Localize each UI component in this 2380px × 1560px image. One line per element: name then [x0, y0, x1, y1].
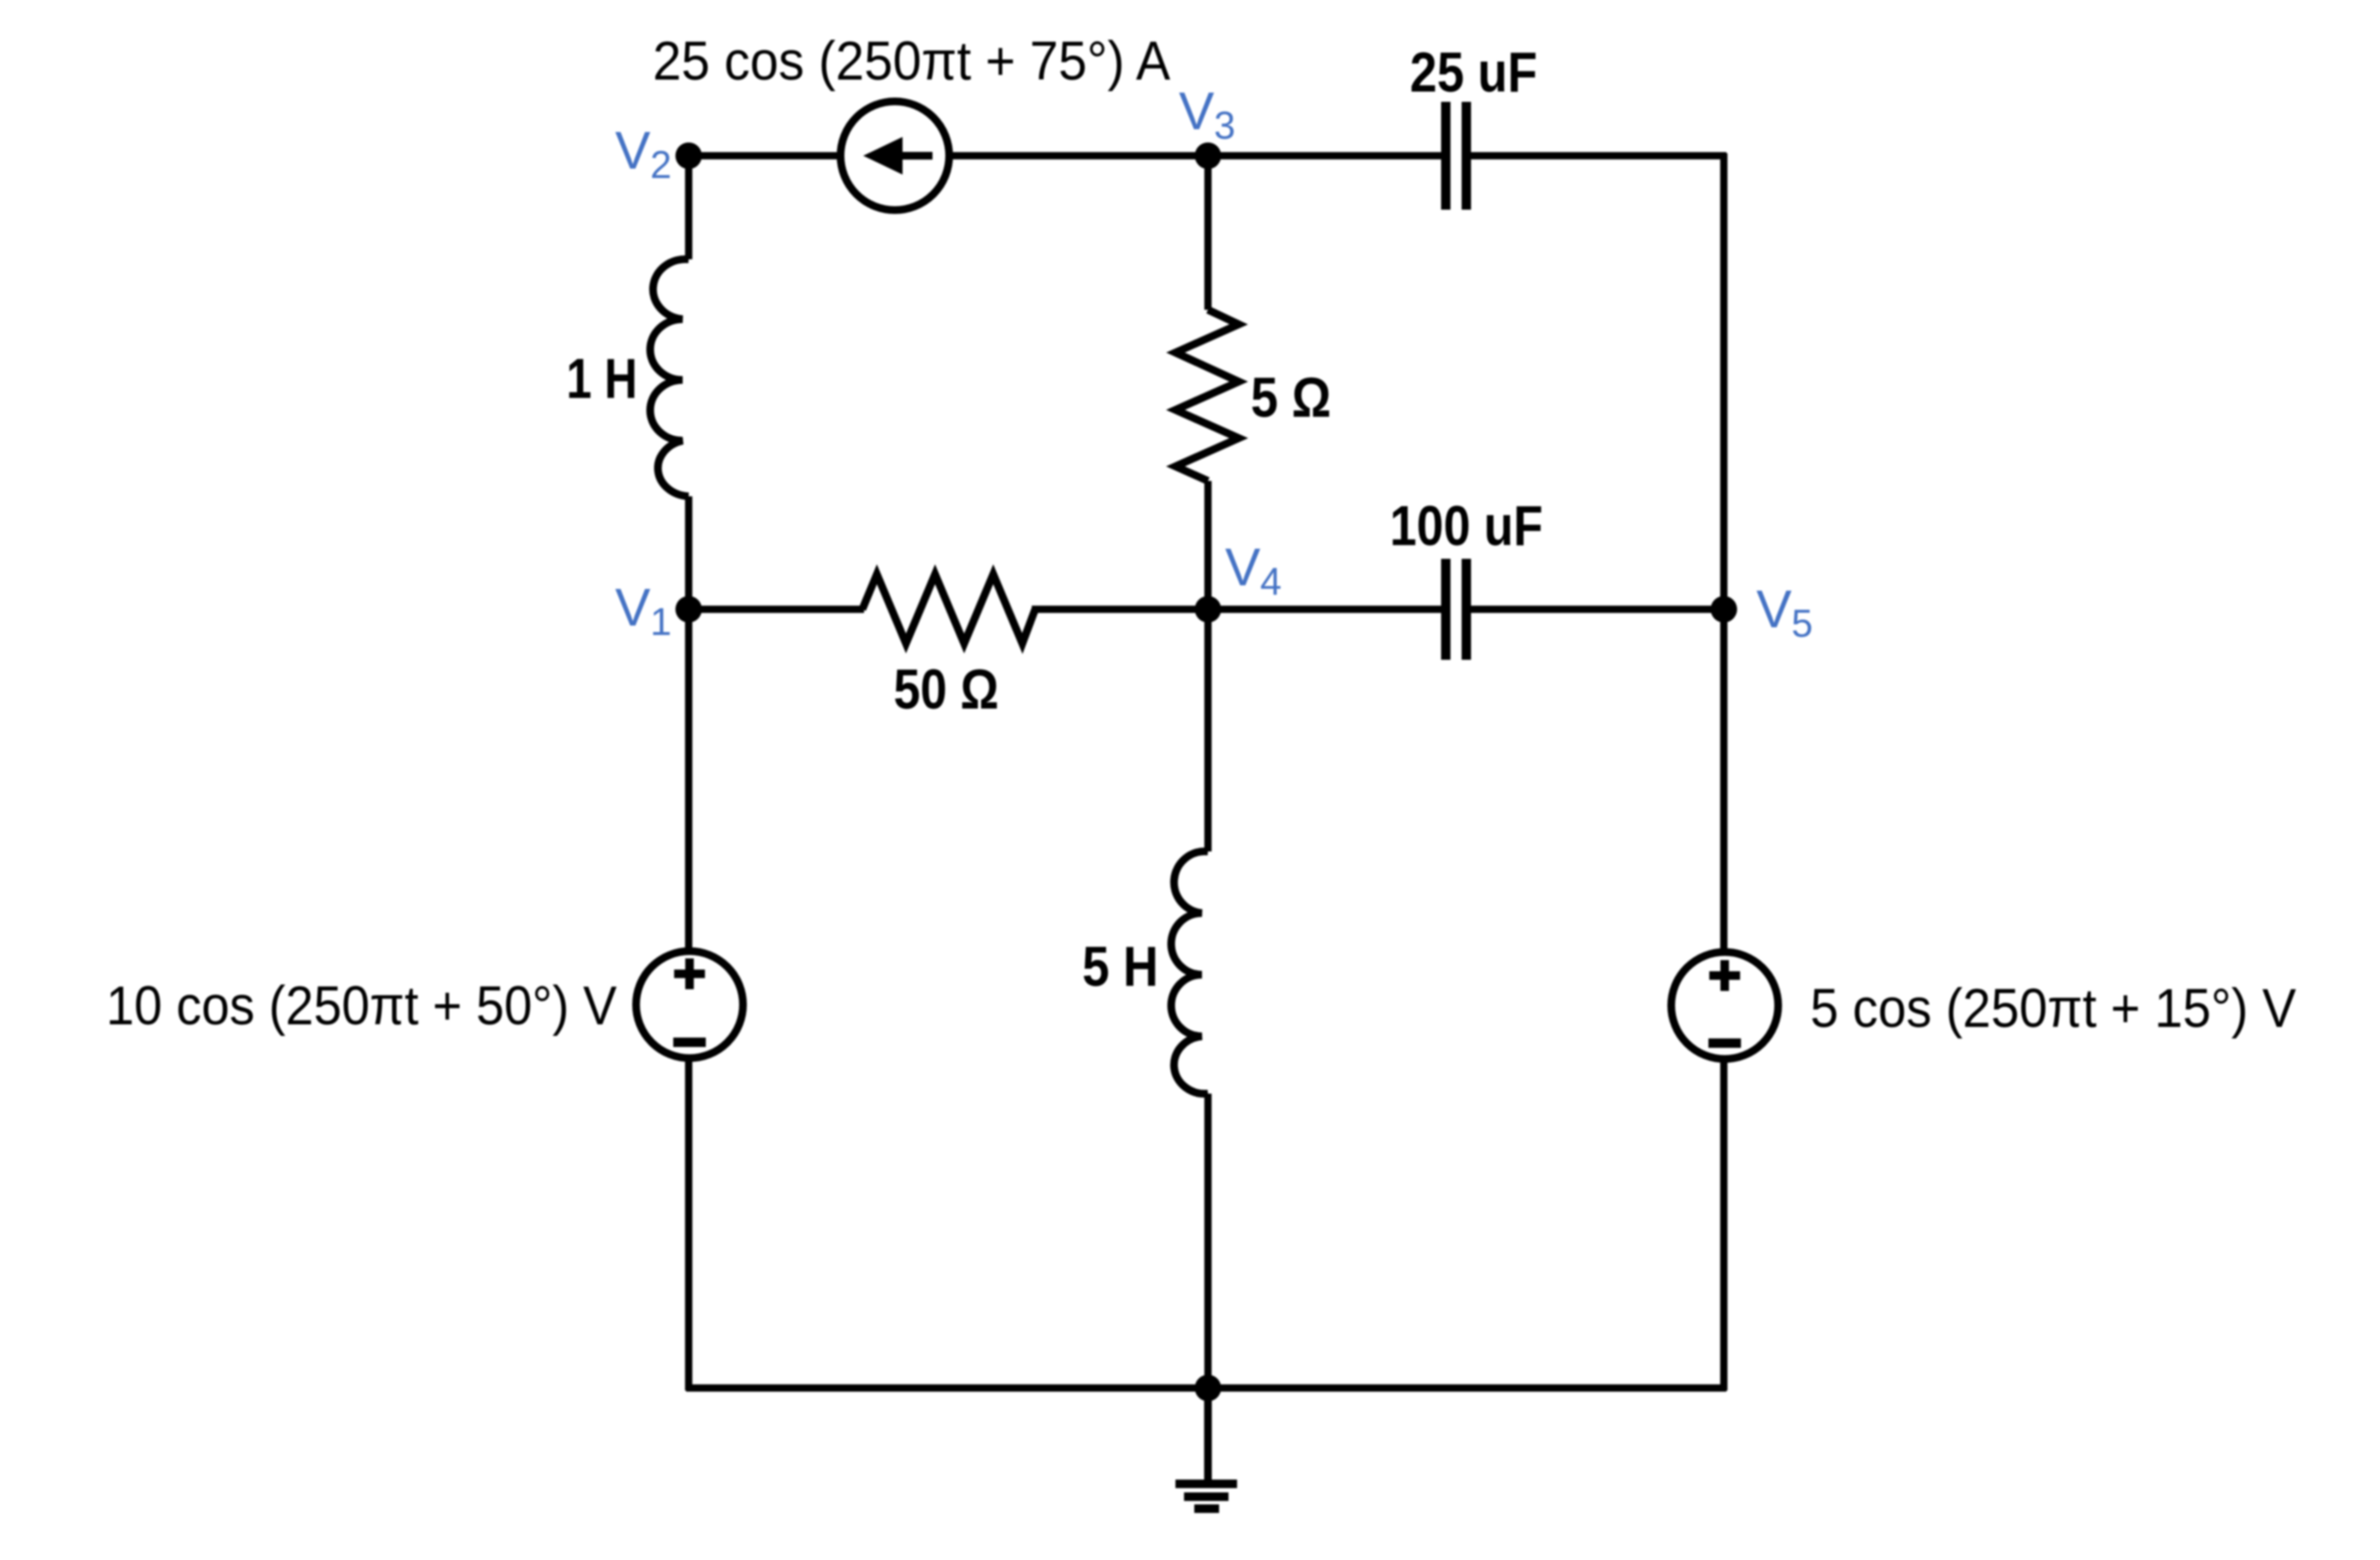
svg-text:5: 5 [1791, 602, 1813, 645]
svg-text:V: V [1179, 82, 1215, 141]
svg-text:25 cos (250πt + 75°) A: 25 cos (250πt + 75°) A [653, 30, 1170, 92]
wire mid row: V4 to capacitor C2 left plate [1208, 606, 1446, 614]
svg-text:3: 3 [1214, 104, 1235, 147]
wire right column: voltage source VS2 to bottom-right corner [1720, 1061, 1728, 1391]
svg-text:V: V [615, 122, 651, 181]
label node V5 [1756, 580, 1813, 645]
wire top-mid: current source to V3 [950, 152, 1208, 160]
label node V1 [615, 578, 672, 644]
inductor L2 5 H (mid column) [1171, 851, 1208, 1094]
svg-text:4: 4 [1260, 560, 1282, 603]
wire right column: top corner down to V5 [1720, 153, 1728, 609]
svg-text:50 Ω: 50 Ω [894, 657, 999, 721]
label node V4 [1225, 538, 1282, 603]
label node V2 [615, 122, 672, 187]
wire left column: voltage source VS1 to bottom-left corner [685, 1061, 693, 1391]
wire left column: inductor L1 to V1 [685, 496, 693, 609]
wire mid column: inductor L2 to bottom junction [1205, 1094, 1212, 1388]
svg-text:10 cos (250πt + 50°) V: 10 cos (250πt + 50°) V [106, 975, 617, 1036]
wire mid row: resistor R1 to V4 [1032, 606, 1208, 614]
wire left column: V1 down to voltage source VS1 [685, 609, 693, 950]
wire mid row: capacitor C2 right plate to V5 [1466, 606, 1724, 614]
svg-text:V: V [1225, 538, 1261, 597]
node V5 (junction dot) [1711, 596, 1738, 623]
wire top-left: V2 to current source [689, 152, 839, 160]
node bottom junction dot [1195, 1375, 1222, 1402]
wire top-right: capacitor C1 right plate to top-right corner [1466, 152, 1726, 160]
inductor L1 1 H (left) [650, 259, 689, 496]
resistor R1 50 Ω (horizontal, mid row) [862, 574, 1035, 644]
wire left column: V2 down to inductor L1 [685, 156, 693, 259]
svg-text:100 uF: 100 uF [1390, 494, 1543, 557]
svg-text:V: V [615, 578, 651, 638]
wire mid row: V1 to resistor R1 [689, 606, 864, 614]
svg-text:5 H: 5 H [1082, 934, 1158, 998]
voltage source VS2 (5 cos, right) [1672, 952, 1779, 1059]
label node V3 [1179, 82, 1235, 147]
svg-text:25 uF: 25 uF [1410, 40, 1537, 104]
wire mid column: resistor R2 to V4 [1205, 481, 1212, 609]
svg-text:V: V [1756, 580, 1792, 639]
ground [1175, 1388, 1237, 1509]
node V1 (junction dot) [676, 596, 702, 623]
wire top-right: V3 to capacitor C1 left plate [1208, 152, 1446, 160]
svg-text:1 H: 1 H [566, 347, 637, 410]
wire right column: V5 down to voltage source VS2 [1720, 609, 1728, 950]
node V3 (junction dot) [1195, 143, 1222, 169]
svg-text:5 cos (250πt + 15°) V: 5 cos (250πt + 15°) V [1810, 977, 2296, 1039]
wire mid column: V3 down to resistor R2 [1205, 156, 1212, 310]
wire mid column: V4 down to inductor L2 [1205, 609, 1212, 851]
svg-text:5 Ω: 5 Ω [1251, 365, 1331, 429]
voltage source VS1 (10 cos, left) [636, 952, 743, 1059]
node V2 (junction dot) [676, 143, 702, 169]
svg-text:1: 1 [650, 600, 672, 644]
svg-text:2: 2 [650, 143, 672, 187]
resistor R2 5 Ω (vertical, mid column) [1175, 310, 1239, 481]
capacitor C2 100 uF (mid row) [1446, 559, 1466, 660]
wire bottom: bottom-left corner to bottom-right corner [686, 1385, 1726, 1392]
current source I1 (25 cos source) [841, 102, 950, 211]
node V4 (junction dot) [1195, 596, 1222, 623]
capacitor C1 25 uF (top) [1446, 102, 1466, 210]
